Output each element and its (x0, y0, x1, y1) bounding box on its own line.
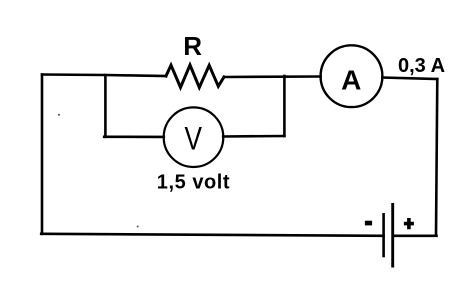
label - (battery negative polarity) (365, 221, 372, 226)
svg-text:1,5 volt: 1,5 volt (157, 172, 230, 194)
wire: voltmeter branch right horizontal (223, 135, 284, 138)
voltmeter V (164, 107, 224, 167)
wire: right side vertical (436, 79, 437, 236)
wire: voltmeter branch right vertical (283, 76, 286, 136)
svg-text:V: V (184, 122, 202, 157)
svg-text:0,3 A: 0,3 A (398, 55, 445, 77)
ammeter A (321, 45, 383, 107)
wire: resistor to ammeter (224, 75, 321, 78)
battery BT1: short negative plate (382, 214, 385, 256)
resistor R (166, 65, 224, 88)
label + (battery positive polarity) (404, 218, 414, 229)
wire: battery positive plate to right corner (393, 235, 436, 238)
wire: bottom segment to battery negative plate (41, 234, 383, 236)
wire: left side vertical (41, 75, 44, 234)
svg-text:R: R (183, 31, 202, 61)
wire: voltmeter branch left horizontal (104, 136, 164, 139)
wire: ammeter to top-right corner (382, 78, 437, 80)
wire: top-left segment from left corner to resistor (42, 75, 166, 77)
wire: voltmeter branch left vertical (104, 75, 107, 137)
battery BT1: long positive plate (391, 204, 394, 266)
svg-text:A: A (341, 65, 361, 96)
